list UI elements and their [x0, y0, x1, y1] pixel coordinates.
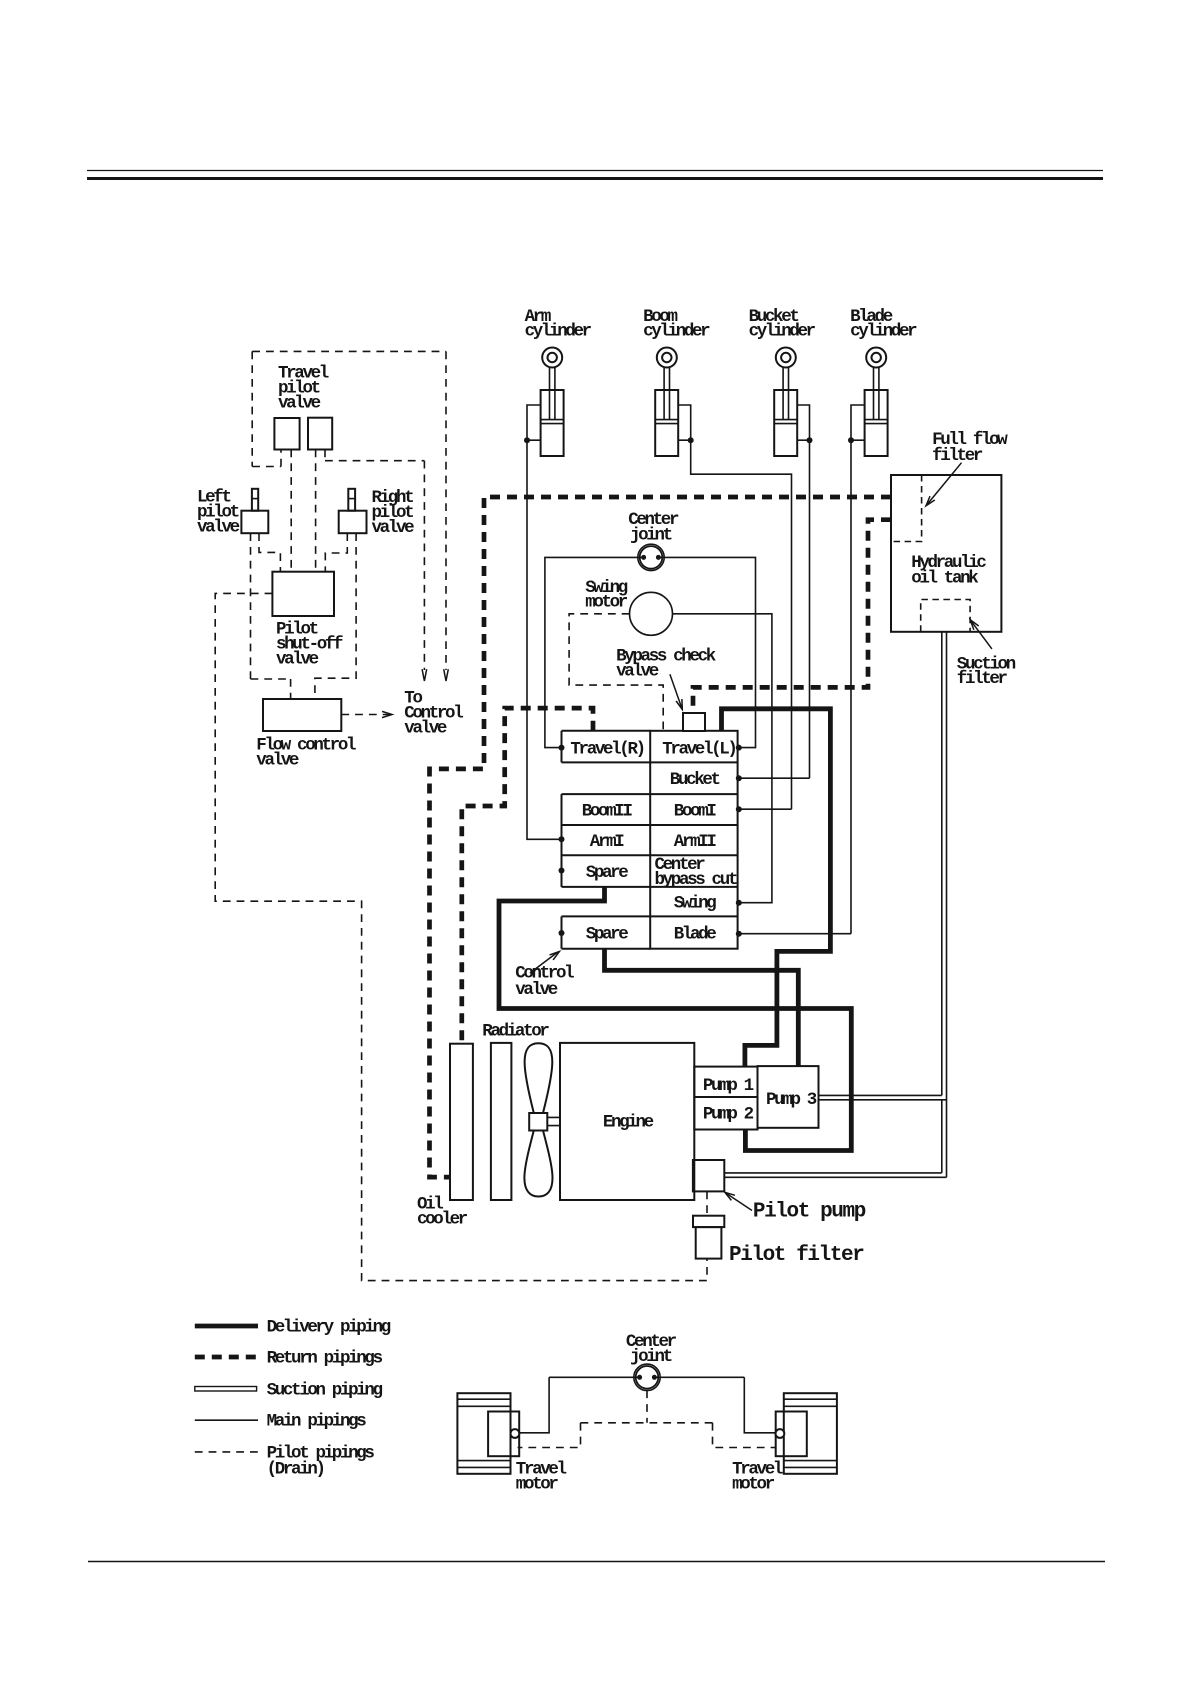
svg-text:Swing: Swing	[674, 894, 717, 914]
svg-text:Pilot pump: Pilot pump	[753, 1201, 866, 1224]
svg-text:valve: valve	[515, 980, 558, 1000]
svg-text:Bucket: Bucket	[670, 770, 720, 790]
svg-text:BoomI: BoomI	[674, 801, 717, 821]
svg-text:Main pipings: Main pipings	[267, 1412, 367, 1432]
svg-text:Blade: Blade	[674, 924, 717, 944]
svg-text:filter: filter	[932, 446, 983, 466]
svg-text:bypass cut: bypass cut	[655, 870, 737, 890]
svg-text:cylinder: cylinder	[749, 322, 816, 342]
svg-text:joint: joint	[630, 1347, 672, 1367]
svg-text:cylinder: cylinder	[525, 322, 592, 342]
svg-text:Engine: Engine	[603, 1113, 654, 1133]
svg-text:cylinder: cylinder	[643, 322, 710, 342]
svg-text:Pump 1: Pump 1	[703, 1076, 754, 1096]
svg-text:Spare: Spare	[586, 863, 629, 883]
svg-text:valve: valve	[276, 650, 319, 670]
svg-text:joint: joint	[630, 526, 672, 546]
svg-text:Pump 2: Pump 2	[703, 1105, 754, 1125]
svg-text:Delivery piping: Delivery piping	[267, 1318, 391, 1338]
svg-text:valve: valve	[197, 518, 240, 538]
svg-text:valve: valve	[278, 394, 321, 414]
svg-text:BoomII: BoomII	[582, 801, 633, 821]
svg-text:(Drain): (Drain)	[267, 1460, 324, 1480]
svg-text:valve: valve	[404, 719, 447, 739]
svg-text:ArmI: ArmI	[590, 832, 624, 852]
svg-text:valve: valve	[256, 751, 299, 771]
svg-text:oil tank: oil tank	[911, 569, 978, 589]
svg-text:Spare: Spare	[586, 924, 629, 944]
svg-text:Pump 3: Pump 3	[766, 1090, 817, 1110]
svg-text:Travel(R): Travel(R)	[570, 739, 643, 759]
svg-text:filter: filter	[957, 669, 1008, 689]
svg-text:Suction piping: Suction piping	[267, 1381, 383, 1401]
svg-text:valve: valve	[616, 662, 659, 682]
svg-text:Return pipings: Return pipings	[267, 1349, 383, 1369]
svg-text:Radiator: Radiator	[482, 1022, 549, 1042]
svg-text:motor: motor	[516, 1475, 559, 1495]
svg-text:Pilot filter: Pilot filter	[729, 1244, 864, 1267]
svg-text:motor: motor	[585, 593, 628, 613]
svg-text:motor: motor	[732, 1475, 775, 1495]
svg-text:cooler: cooler	[417, 1210, 468, 1230]
svg-text:valve: valve	[372, 518, 415, 538]
svg-text:ArmII: ArmII	[674, 832, 717, 852]
svg-text:Travel(L): Travel(L)	[662, 739, 735, 759]
svg-text:cylinder: cylinder	[850, 322, 917, 342]
